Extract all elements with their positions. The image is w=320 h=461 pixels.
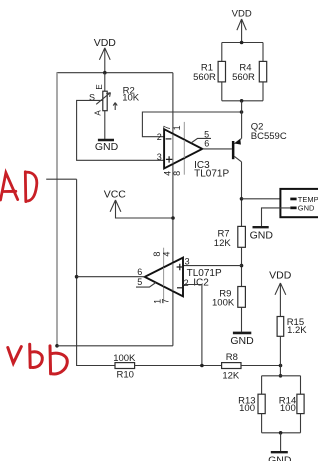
wire R13/R14 top rail	[262, 376, 301, 394]
svg-text:IC2: IC2	[193, 277, 209, 288]
svg-text:8: 8	[172, 171, 182, 176]
wire R15 down through junctions	[279, 336, 281, 376]
svg-text:GND: GND	[95, 141, 119, 153]
node feedback junction	[240, 110, 244, 114]
svg-text:3: 3	[157, 152, 162, 162]
svg-text:GND: GND	[268, 455, 292, 461]
wire collector to TEMP pin	[242, 198, 291, 200]
svg-text:GND: GND	[298, 204, 315, 213]
node R13/R14 top junction	[279, 374, 283, 378]
svg-text:100K: 100K	[212, 298, 235, 309]
svg-text:12K: 12K	[222, 370, 240, 381]
wire R1 leads	[221, 43, 223, 101]
wire R10 to R8	[135, 365, 222, 367]
resistor R9 100K	[212, 287, 245, 309]
svg-text:12K: 12K	[214, 238, 232, 249]
wire R8 to R15 node	[241, 365, 281, 367]
node VDD bottom corner	[55, 344, 59, 348]
svg-text:2: 2	[157, 132, 162, 142]
svg-text:6: 6	[204, 139, 209, 149]
wire emitter vertical	[241, 101, 243, 139]
svg-text:100: 100	[280, 403, 296, 414]
annotation AD (red handwriting)	[1, 173, 18, 200]
svg-text:1.2K: 1.2K	[287, 325, 307, 336]
supply VDD (R15)	[269, 270, 292, 317]
svg-text:2: 2	[184, 278, 189, 288]
svg-text:4: 4	[161, 252, 171, 257]
svg-text:100K: 100K	[113, 353, 136, 364]
svg-text:3: 3	[185, 256, 190, 266]
wire S terminal of R2 to IC3 pin 3	[77, 100, 165, 160]
svg-text:VCC: VCC	[104, 188, 127, 200]
wire R2 top	[104, 73, 106, 92]
svg-text:GND: GND	[250, 230, 274, 242]
node feedback junction R10/R8	[200, 364, 204, 368]
ground GND (bottom right)	[268, 452, 292, 461]
wire to bottom ground	[280, 433, 282, 451]
wire connector GND pin to ground	[262, 208, 291, 226]
wire IC3 output to Q2 base	[202, 148, 232, 150]
node VCC junction	[171, 216, 175, 220]
svg-text:1: 1	[172, 125, 182, 130]
wire Q2 collector down	[241, 162, 243, 227]
resistor R15 1.2K	[277, 317, 307, 337]
resistor R14 100	[279, 394, 304, 414]
node TEMP junction	[240, 197, 244, 201]
svg-text:E: E	[95, 84, 104, 89]
ground GND (connector)	[250, 227, 274, 241]
resistor R1 560R	[193, 61, 225, 83]
wire VDD rail top horizontal	[57, 72, 173, 74]
svg-text:560R: 560R	[232, 72, 255, 83]
svg-text:BC559C: BC559C	[251, 131, 287, 142]
svg-text:7: 7	[161, 299, 171, 304]
svg-text:GND: GND	[230, 335, 254, 347]
wire R7 to IC2 pin3 node	[241, 247, 243, 286]
wire IC2 output to AD net	[77, 276, 145, 278]
wire IC3 feedback pin2 to emitter node	[142, 112, 241, 137]
resistor R4 560R	[232, 61, 267, 83]
svg-text:5: 5	[137, 277, 142, 287]
svg-text:TL071P: TL071P	[194, 168, 229, 179]
node IC2 pin3 junction	[240, 264, 244, 268]
wire R9 to ground	[241, 307, 243, 332]
wire AD net vertical down to bottom run	[77, 179, 115, 365]
ground GND (below R2)	[95, 140, 119, 153]
resistor R7 12K	[214, 226, 246, 249]
svg-text:100: 100	[239, 403, 255, 414]
svg-text:R10: R10	[116, 369, 133, 380]
node VDD junction above R1 R4	[240, 41, 244, 45]
supply VDD (top left)	[94, 37, 117, 72]
svg-text:TEMP: TEMP	[298, 195, 318, 204]
svg-text:VDD: VDD	[269, 270, 292, 282]
wire AD stub	[46, 178, 76, 180]
resistor R13 100	[238, 394, 265, 414]
wire R1 R4 top rail	[222, 42, 263, 44]
svg-text:10K: 10K	[122, 92, 140, 103]
supply VCC	[104, 188, 173, 218]
svg-text:7: 7	[162, 125, 172, 130]
wire IC2 pin3	[183, 265, 242, 267]
node IC2 output junction on AD net	[75, 275, 79, 279]
svg-text:R8: R8	[226, 352, 238, 363]
wire left VDD rail vertical (gray)	[56, 73, 58, 346]
connector TEMP/GND header	[280, 189, 320, 217]
op-amp IC3 TL071P	[157, 73, 230, 346]
wire R1 R4 bottom rail	[222, 100, 263, 102]
transistor Q2 BC559C	[232, 121, 287, 161]
wire R4 leads	[262, 43, 264, 101]
node R8/R15 junction	[279, 364, 283, 368]
wire IC2 pin2 feedback down	[183, 285, 202, 366]
wire VDD rail bottom to IC2 pin7	[57, 345, 173, 347]
resistor R8 12K	[222, 352, 241, 381]
ground GND (R9)	[230, 333, 254, 347]
node VDD junction at R2 top	[103, 71, 107, 75]
svg-text:560R: 560R	[193, 72, 216, 83]
potentiometer R2 10K	[89, 84, 140, 115]
op-amp IC2 TL071P	[136, 248, 222, 304]
wire R2 bottom to ground	[104, 111, 106, 139]
annotation VDD (red handwriting)	[8, 347, 21, 364]
svg-text:A: A	[94, 110, 103, 116]
node R13/R14 bottom junction	[279, 431, 283, 435]
node emitter net junction	[240, 99, 244, 103]
resistor R10 100K	[113, 353, 136, 381]
supply VDD (top right)	[232, 8, 252, 42]
svg-text:6: 6	[137, 267, 142, 277]
svg-text:VDD: VDD	[94, 37, 117, 49]
wire R13/R14 bottom rail	[262, 414, 301, 433]
svg-text:VDD: VDD	[232, 8, 252, 19]
